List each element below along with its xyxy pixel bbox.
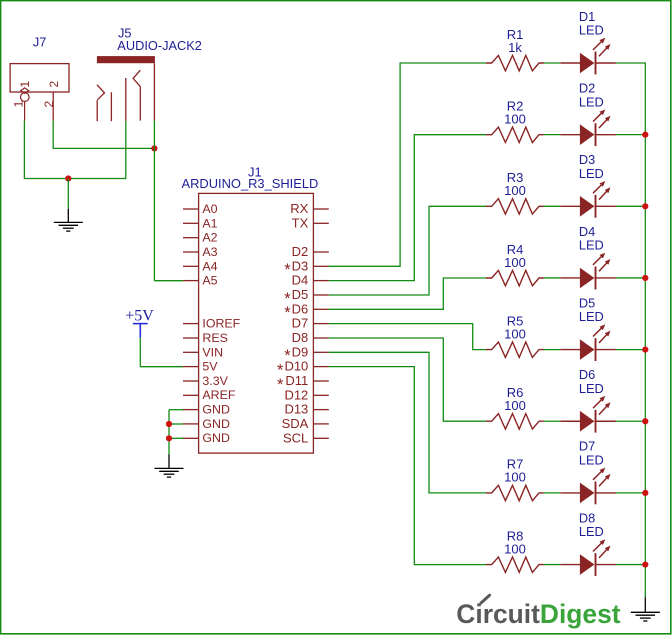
svg-text:D11: D11 <box>285 373 308 388</box>
svg-text:RES: RES <box>202 331 227 345</box>
junction bus row 4 <box>642 275 648 281</box>
svg-text:D6: D6 <box>292 301 309 316</box>
svg-text:GND: GND <box>202 417 230 431</box>
svg-text:D7: D7 <box>579 439 595 454</box>
wire R8 to D8 <box>544 564 560 566</box>
svg-text:100: 100 <box>504 255 526 270</box>
wire D5 to bus <box>616 349 645 351</box>
junction signal <box>151 145 157 151</box>
svg-text:LED: LED <box>579 23 604 38</box>
wire cathode bus <box>644 63 646 597</box>
LED D7 <box>560 468 616 505</box>
svg-text:100: 100 <box>504 541 526 556</box>
junction bus row 6 <box>642 418 648 424</box>
svg-text:D3: D3 <box>579 152 595 167</box>
svg-text:A5: A5 <box>202 274 217 288</box>
svg-text:A3: A3 <box>202 245 217 259</box>
junction bus row 5 <box>642 347 648 353</box>
LED D8 <box>560 539 616 576</box>
ground stem left <box>67 209 69 223</box>
resistor R6 100 <box>486 414 544 430</box>
svg-text:D8: D8 <box>292 330 309 345</box>
svg-text:D3: D3 <box>292 258 309 273</box>
resistor R8 100 <box>486 557 544 572</box>
svg-text:AUDIO-JACK2: AUDIO-JACK2 <box>117 38 202 53</box>
wire GND vertical <box>168 410 170 455</box>
logo accent <box>481 595 490 603</box>
svg-text:5V: 5V <box>202 360 218 374</box>
svg-text:A2: A2 <box>202 231 217 245</box>
resistor R1 1k <box>486 55 544 70</box>
junction bus row 3 <box>642 203 648 209</box>
svg-text:*: * <box>277 376 284 394</box>
wire GND2 <box>169 423 183 425</box>
wire net *D10 <box>329 367 487 565</box>
svg-text:3.3V: 3.3V <box>202 374 228 388</box>
wire J7-2 down <box>52 121 54 149</box>
wire net D7 <box>329 324 487 350</box>
audio jack J5 body <box>97 56 155 63</box>
wire net *D3 <box>329 63 487 266</box>
wire signal horizontal <box>53 147 155 149</box>
supply +5V symbol <box>133 324 148 338</box>
svg-text:D8: D8 <box>579 510 595 525</box>
wire D1 to bus <box>616 62 646 64</box>
svg-text:LED: LED <box>579 524 604 539</box>
svg-text:+5V: +5V <box>125 307 154 324</box>
svg-text:ARDUINO_R3_SHIELD: ARDUINO_R3_SHIELD <box>182 176 319 191</box>
J7 pin 2 <box>52 92 54 120</box>
svg-text:A0: A0 <box>202 202 217 216</box>
wire J7-1 down <box>23 121 25 179</box>
svg-text:D9: D9 <box>292 344 309 359</box>
J5 contact 3 <box>125 78 127 121</box>
svg-text:1: 1 <box>18 81 32 88</box>
svg-text:A1: A1 <box>202 216 217 230</box>
junction GND2 <box>166 421 172 427</box>
J1 right pin stubs <box>313 209 328 438</box>
LED D5 <box>560 324 616 361</box>
J5 tip contact <box>97 85 105 122</box>
ground symbol chip <box>155 468 184 477</box>
resistor R5 100 <box>486 342 544 357</box>
svg-text:SDA: SDA <box>282 416 309 431</box>
svg-text:D5: D5 <box>579 295 595 310</box>
ground symbol bus <box>631 612 660 621</box>
wire D2 to bus <box>616 134 645 136</box>
ground symbol left <box>54 222 83 231</box>
wire to A5 pin <box>154 280 183 282</box>
wire J5 sleeve to A5 <box>153 121 155 281</box>
svg-text:RX: RX <box>290 201 308 216</box>
J1 left pin stubs <box>183 209 199 438</box>
svg-text:SCL: SCL <box>283 430 308 445</box>
J5 contact 2 <box>110 92 112 121</box>
wire +5V down <box>139 338 141 367</box>
wire R3 to D3 <box>544 205 560 207</box>
wire J5-3 down <box>125 121 127 179</box>
J5 ring contact <box>133 70 140 120</box>
wire net *D6 <box>329 278 487 309</box>
svg-text:J7: J7 <box>33 34 47 49</box>
svg-text:D13: D13 <box>284 402 308 417</box>
J7 pin 1 <box>21 88 30 121</box>
junction bus row 8 <box>642 561 648 567</box>
wire D8 to bus <box>616 564 645 566</box>
LED D3 <box>560 181 616 218</box>
svg-text:D7: D7 <box>292 316 309 331</box>
connector J7 <box>10 64 69 92</box>
svg-text:GND: GND <box>202 431 230 445</box>
junction bus row 2 <box>642 132 648 138</box>
svg-text:2: 2 <box>47 81 61 88</box>
CircuitDigest logo <box>456 599 620 629</box>
svg-text:GND: GND <box>202 403 230 417</box>
svg-text:100: 100 <box>504 470 526 485</box>
svg-text:LED: LED <box>579 309 604 324</box>
LED D1 <box>560 38 616 75</box>
svg-text:D5: D5 <box>292 287 309 302</box>
svg-text:D4: D4 <box>292 273 309 288</box>
junction bus row 7 <box>642 490 648 496</box>
svg-text:LED: LED <box>579 166 604 181</box>
svg-text:D6: D6 <box>579 367 595 382</box>
svg-text:TX: TX <box>292 215 309 230</box>
svg-text:LED: LED <box>579 94 604 109</box>
ground stem chip <box>168 455 170 469</box>
svg-text:100: 100 <box>504 398 526 413</box>
wire R1 to D1 <box>544 62 560 64</box>
wire net D4 <box>329 135 487 281</box>
svg-text:100: 100 <box>504 183 526 198</box>
wire net *D5 <box>329 206 487 295</box>
wire net D8 <box>329 338 487 421</box>
svg-text:1k: 1k <box>508 40 522 55</box>
LED D4 <box>560 253 616 290</box>
svg-text:100: 100 <box>504 326 526 341</box>
wire net *D9 <box>329 352 487 493</box>
wire D3 to bus <box>616 205 645 207</box>
wire gnd horizontal <box>24 178 126 180</box>
wire R2 to D2 <box>544 134 560 136</box>
svg-text:2: 2 <box>42 101 56 108</box>
svg-text:D4: D4 <box>579 224 595 239</box>
svg-text:IOREF: IOREF <box>202 317 240 331</box>
svg-text:D10: D10 <box>284 359 308 374</box>
svg-text:LED: LED <box>579 238 604 253</box>
svg-text:1: 1 <box>11 100 25 107</box>
svg-text:D2: D2 <box>579 80 595 95</box>
svg-text:D1: D1 <box>579 9 595 24</box>
svg-text:*: * <box>284 304 291 322</box>
wire R5 to D5 <box>544 349 560 351</box>
resistor R7 100 <box>486 485 544 500</box>
svg-text:LED: LED <box>579 453 604 468</box>
wire R7 to D7 <box>544 492 560 494</box>
wire +5V to 5V pin <box>140 366 183 368</box>
resistor R4 100 <box>486 270 544 285</box>
LED D2 <box>560 109 616 146</box>
IC J1 ARDUINO_R3_SHIELD box <box>199 193 314 453</box>
svg-text:D2: D2 <box>292 244 309 259</box>
svg-text:A4: A4 <box>202 259 217 273</box>
wire D7 to bus <box>616 492 645 494</box>
wire D6 to bus <box>616 420 645 422</box>
svg-text:D12: D12 <box>284 387 308 402</box>
wire R4 to D4 <box>544 277 560 279</box>
wire D4 to bus <box>616 277 645 279</box>
ground stem bus <box>644 597 646 612</box>
svg-text:AREF: AREF <box>202 388 235 402</box>
junction GND3 <box>166 435 172 441</box>
junction gnd-left <box>65 175 71 181</box>
wire GND3 <box>169 437 183 439</box>
svg-text:VIN: VIN <box>202 345 223 359</box>
LED D6 <box>560 396 616 433</box>
svg-text:100: 100 <box>504 111 526 126</box>
J5 sleeve pin <box>153 63 155 120</box>
resistor R2 100 <box>486 127 544 142</box>
svg-text:*: * <box>284 261 291 279</box>
wire GND1 <box>169 409 183 411</box>
wire R6 to D6 <box>544 420 560 422</box>
wire to ground <box>67 179 69 209</box>
resistor R3 100 <box>486 199 544 214</box>
svg-text:LED: LED <box>579 381 604 396</box>
